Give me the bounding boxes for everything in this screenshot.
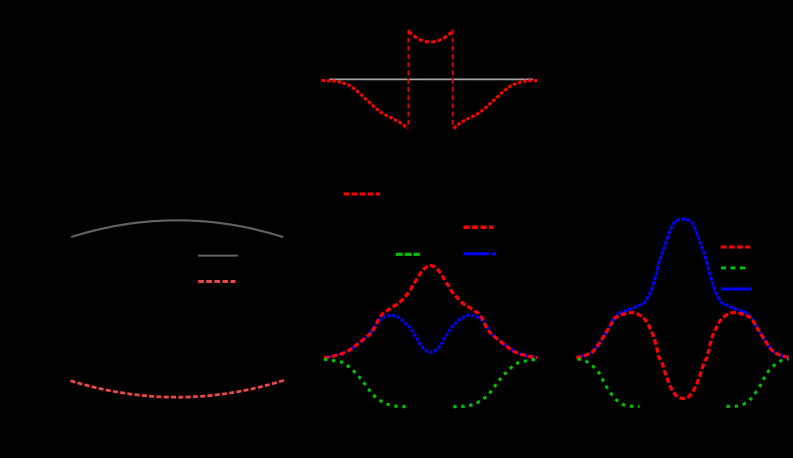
legend red dashed sample, middle bottom panel xyxy=(464,226,494,230)
legend blue solid sample, right panel xyxy=(721,288,752,291)
green dotted left arm, middle bottom panel xyxy=(324,359,408,407)
gray horizontal zero line, middle top panel xyxy=(329,78,533,80)
legend green dashed sample, right panel xyxy=(721,266,746,269)
legend gray solid sample, left panel xyxy=(198,255,238,257)
legend green dashed sample, middle bottom panel xyxy=(396,253,420,256)
red dashed potential curve right branch xyxy=(454,80,540,128)
blue dashed double-hump curve, middle bottom panel xyxy=(324,315,537,357)
red dashed double-hump curve with central dip, right panel xyxy=(576,313,790,399)
legend red dashed sample, left panel xyxy=(198,280,235,283)
red dashed bump inside slab xyxy=(409,31,453,42)
legend red dashed sample, right panel xyxy=(721,246,751,249)
gray solid arc, left panel xyxy=(71,220,283,237)
red dashed potential curve left branch xyxy=(322,80,408,128)
green dotted right arm, middle bottom panel xyxy=(453,359,537,407)
green dotted right arm, right panel xyxy=(727,359,789,406)
red dashed vertical line, left slab edge xyxy=(407,30,409,129)
blue central peak curve, right panel xyxy=(576,219,790,357)
green dotted left arm, right panel xyxy=(578,359,640,406)
red dashed central peak curve, middle bottom panel xyxy=(324,266,537,358)
red dashed vertical line, right slab edge xyxy=(452,30,454,129)
red dashed arc, left panel xyxy=(71,380,285,397)
legend blue solid sample, middle bottom panel xyxy=(464,252,497,255)
legend red dashed sample, middle top panel xyxy=(344,193,380,196)
